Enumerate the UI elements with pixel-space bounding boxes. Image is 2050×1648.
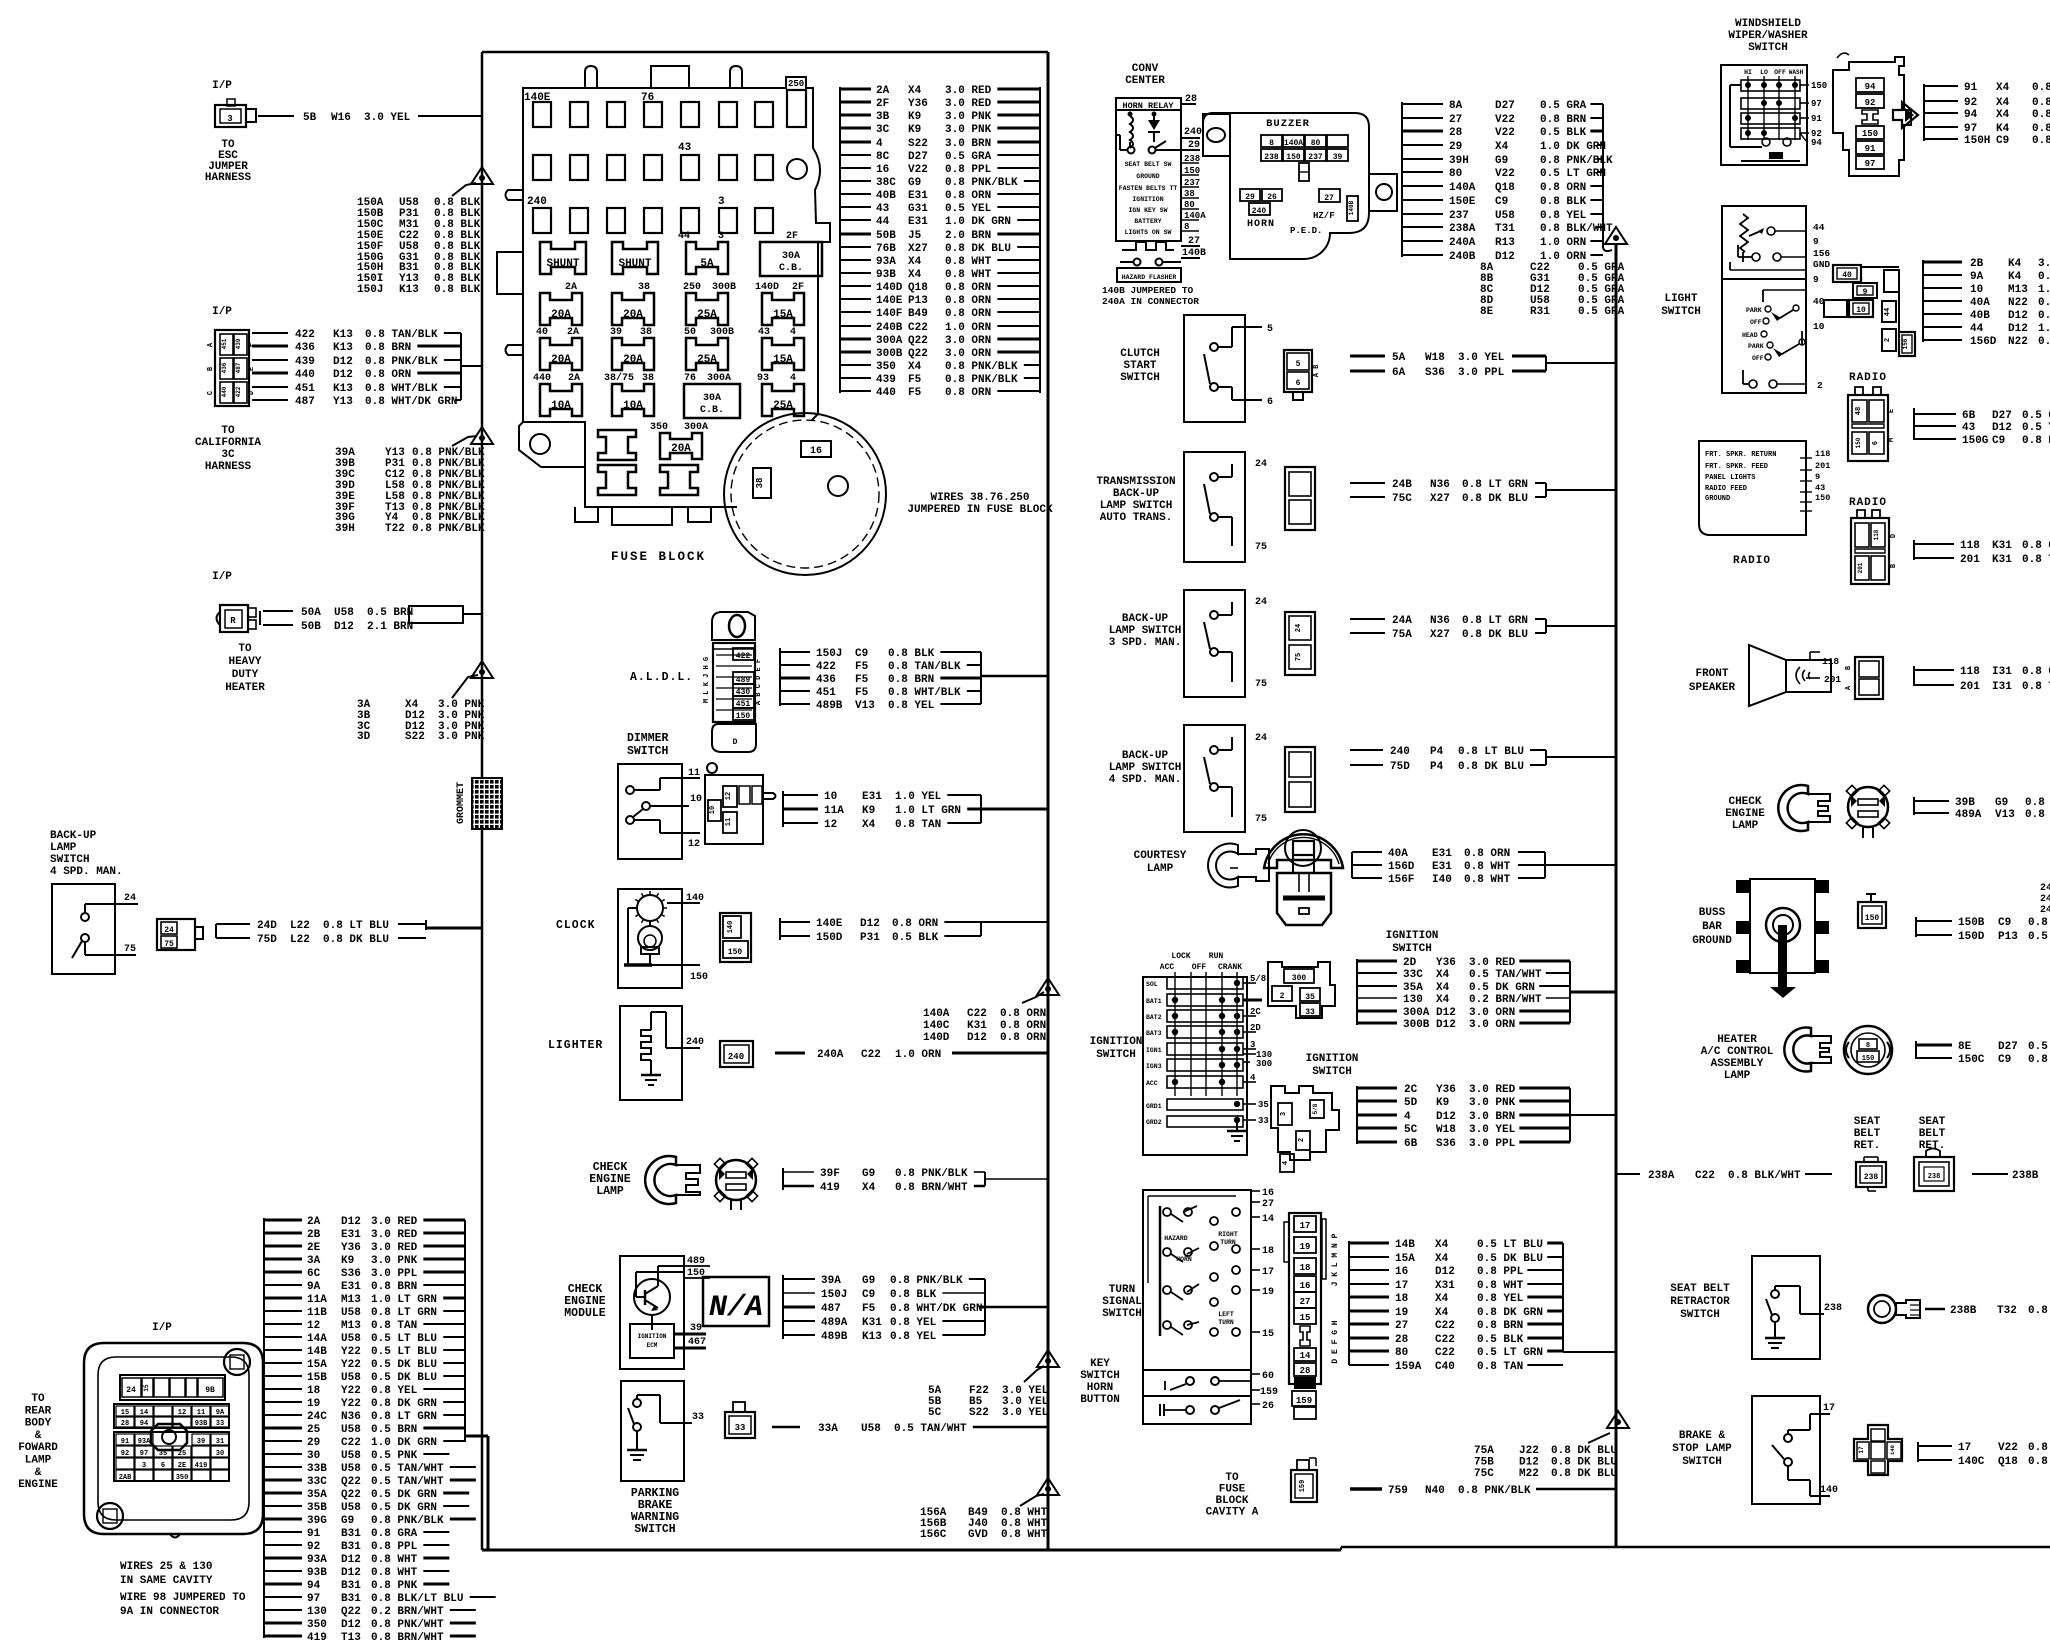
svg-text:0.8 BLK: 0.8 BLK: [2028, 917, 2050, 929]
svg-text:0.5 GRA: 0.5 GRA: [1578, 306, 1625, 318]
svg-text:HARNESS: HARNESS: [205, 461, 252, 473]
svg-text:CHECK: CHECK: [1728, 796, 1761, 808]
svg-text:GRD2: GRD2: [1146, 1119, 1162, 1126]
svg-text:5A: 5A: [700, 258, 714, 270]
svg-text:F5: F5: [862, 1303, 876, 1315]
svg-text:G9: G9: [908, 177, 921, 189]
svg-text:4: 4: [790, 327, 796, 338]
connector ignition upper: [1268, 962, 1335, 1018]
svg-text:3 SPD. MAN.: 3 SPD. MAN.: [1109, 637, 1182, 649]
svg-text:LOCK: LOCK: [1171, 952, 1190, 961]
svg-text:G9: G9: [1995, 797, 2008, 809]
svg-text:RADIO: RADIO: [1733, 555, 1771, 567]
pin 24: [116, 903, 138, 905]
node triangle spine lower: [1607, 1411, 1629, 1428]
svg-text:STOP LAMP: STOP LAMP: [1672, 1443, 1732, 1455]
svg-text:T22: T22: [385, 523, 405, 535]
fuse cavity r2c7: [755, 155, 773, 180]
wire 39F G9 0.8 PNK/BLK: [783, 1171, 814, 1173]
svg-text:E31: E31: [341, 1281, 361, 1293]
svg-text:0.5 LT BLU: 0.5 LT BLU: [371, 1333, 437, 1345]
wire transmission join spine: [1545, 483, 1547, 497]
wire 14A U58 0.5 LT BLU: [264, 1336, 302, 1338]
clock lamp: [638, 926, 662, 950]
svg-text:SWITCH: SWITCH: [1102, 1308, 1142, 1320]
svg-text:K13: K13: [333, 383, 353, 395]
svg-text:BRAKE &: BRAKE &: [1679, 1430, 1726, 1442]
svg-text:240A: 240A: [1449, 237, 1476, 249]
svg-text:2D: 2D: [1250, 1023, 1261, 1033]
svg-text:93B: 93B: [876, 269, 896, 281]
svg-text:M13: M13: [341, 1294, 361, 1306]
svg-text:X27: X27: [908, 243, 928, 255]
svg-text:D12: D12: [2008, 323, 2028, 335]
svg-text:0.8 YEL: 0.8 YEL: [2028, 1442, 2050, 1454]
svg-text:93A: 93A: [307, 1554, 327, 1566]
wire 451 K13 0.8 WHT/BLK: [252, 386, 288, 388]
wire 93A X4 0.8 WHT: [840, 259, 871, 261]
svg-text:C22: C22: [967, 1008, 987, 1020]
svg-text:0.8 PNK/BLK: 0.8 PNK/BLK: [890, 1275, 963, 1287]
svg-text:33A: 33A: [818, 1423, 838, 1435]
wire 44 E31 1.0 DK GRN: [840, 219, 871, 221]
svg-text:6: 6: [1296, 379, 1301, 388]
svg-text:440: 440: [295, 369, 315, 381]
svg-text:5C: 5C: [928, 1407, 942, 1419]
svg-text:Q22: Q22: [341, 1476, 361, 1488]
svg-text:436: 436: [221, 362, 228, 373]
svg-text:F5: F5: [855, 674, 869, 686]
svg-text:0.8 BRN: 0.8 BRN: [1540, 114, 1586, 126]
wire 97 K4 0.8: [1924, 126, 1958, 128]
svg-text:B49: B49: [908, 308, 928, 320]
svg-text:N36: N36: [341, 1411, 361, 1423]
svg-text:X4: X4: [862, 819, 876, 831]
svg-text:FOWARD: FOWARD: [18, 1442, 58, 1454]
svg-text:17: 17: [1262, 1267, 1274, 1278]
svg-text:ASSEMBLY: ASSEMBLY: [1711, 1058, 1764, 1070]
wire 150C C9 0.8 BLK: [1916, 1057, 1952, 1059]
svg-text:3: 3: [227, 114, 232, 124]
fuse cavity r3c6: [719, 208, 737, 233]
light switch rheostat: [1740, 214, 1748, 252]
svg-text:SPEAKER: SPEAKER: [1689, 682, 1736, 694]
svg-text:39H: 39H: [335, 523, 355, 535]
wire 6B S36 3.0 PPL: [1357, 1141, 1397, 1144]
svg-text:43: 43: [758, 327, 770, 338]
svg-text:39: 39: [690, 1323, 702, 1334]
svg-text:M13: M13: [341, 1320, 361, 1332]
svg-text:3.0 ORN: 3.0 ORN: [1469, 1007, 1515, 1019]
wire 91 B31 0.8 GRA: [264, 1531, 302, 1533]
svg-text:0.8 PNK/BLK: 0.8 PNK/BLK: [365, 356, 438, 368]
svg-text:MODULE: MODULE: [564, 1307, 606, 1320]
horn cavity 26: [1262, 189, 1282, 201]
fuse cavity r1c1: [533, 102, 551, 127]
svg-text:38: 38: [755, 478, 765, 489]
connector seat belt ret 2: [1914, 1157, 1954, 1191]
svg-text:0.8 DK BLU: 0.8 DK BLU: [1462, 629, 1528, 641]
svg-text:0.8 BRN: 0.8 BRN: [888, 674, 934, 686]
svg-text:75D: 75D: [257, 934, 277, 946]
wire center spine: [1615, 244, 1618, 1547]
wire 16 V22 0.8 PPL: [840, 167, 871, 169]
svg-text:0.8 PPL: 0.8 PPL: [1477, 1266, 1524, 1278]
wire 130 Q22 0.2 BRN/WHT: [264, 1609, 302, 1611]
svg-text:BAT1: BAT1: [1146, 998, 1162, 1005]
svg-text:D27: D27: [1992, 410, 2012, 422]
wiper switch wiper contacts: [1762, 138, 1770, 146]
horn relay contacts: [1128, 147, 1135, 154]
svg-text:X4: X4: [908, 269, 922, 281]
fuse cavity r3c5: [681, 208, 699, 233]
fuse cavity r3c3: [607, 208, 625, 233]
svg-text:I/P: I/P: [212, 571, 232, 583]
wire 350 X4 0.8 PNK/BLK: [840, 364, 871, 366]
svg-text:150E: 150E: [1449, 196, 1476, 208]
svg-text:118: 118: [1960, 540, 1980, 552]
svg-text:N36: N36: [1430, 615, 1450, 627]
fuse cavity r3c1: [533, 208, 551, 233]
wire 94 X4 0.8: [1924, 112, 1958, 114]
retractor switch contacts: [1771, 1290, 1779, 1298]
svg-text:15A: 15A: [773, 354, 793, 366]
svg-text:C9: C9: [862, 1289, 875, 1301]
svg-text:V22: V22: [1495, 168, 1515, 180]
svg-text:25: 25: [307, 1424, 321, 1436]
svg-text:27: 27: [1262, 1199, 1274, 1210]
wire 19 Y22 0.8 DK GRN: [264, 1401, 302, 1403]
wire 43 D12 0.5 YEL: [1914, 425, 1956, 427]
svg-text:6B: 6B: [1962, 410, 1976, 422]
svg-text:0.8 YEL: 0.8 YEL: [890, 1331, 937, 1343]
svg-text:19: 19: [1262, 1287, 1274, 1298]
svg-text:0.8 WHT: 0.8 WHT: [371, 1567, 418, 1579]
fuse vertical 1: [598, 430, 636, 460]
check engine lamp bulb: [716, 1160, 756, 1200]
svg-text:K9: K9: [862, 805, 875, 817]
svg-text:B31: B31: [341, 1580, 361, 1592]
svg-text:0.8 ORN: 0.8 ORN: [1000, 1032, 1046, 1044]
svg-text:33C: 33C: [307, 1476, 327, 1488]
svg-text:75: 75: [164, 940, 174, 949]
svg-text:140B: 140B: [1348, 200, 1355, 215]
svg-text:0.5 BRN: 0.5 BRN: [371, 1424, 417, 1436]
svg-text:300: 300: [1292, 974, 1307, 983]
courtesy lamp assembly: [1264, 834, 1343, 868]
svg-text:0.8 LT BLU: 0.8 LT BLU: [323, 920, 389, 932]
svg-text:OFF: OFF: [1774, 69, 1786, 76]
svg-text:140D: 140D: [755, 282, 779, 293]
fuse cavity r1c5: [681, 102, 699, 127]
svg-text:0.8 DK BLU: 0.8 DK BLU: [1551, 1445, 1617, 1457]
pin 240: [666, 1047, 700, 1049]
svg-text:REAR: REAR: [25, 1405, 52, 1417]
connector lighter 240: [720, 1041, 753, 1067]
wire 150D P13 0.5 BLK: [1916, 934, 1952, 936]
svg-text:L22: L22: [290, 934, 310, 946]
svg-text:LEFT: LEFT: [1218, 1311, 1234, 1318]
svg-text:W18: W18: [1425, 352, 1445, 364]
svg-text:487: 487: [235, 362, 242, 373]
wire 150E C9 0.8 BLK: [1402, 199, 1443, 201]
wire bus ALDL bracket: [779, 648, 781, 706]
svg-text:150H: 150H: [1964, 135, 1990, 147]
svg-text:E31: E31: [1432, 861, 1452, 873]
svg-text:4: 4: [876, 138, 883, 150]
connector center octagon: [151, 1424, 187, 1450]
svg-text:AUTO TRANS.: AUTO TRANS.: [1100, 512, 1173, 524]
svg-text:LAMP: LAMP: [596, 1185, 624, 1198]
svg-text:ACC: ACC: [1146, 1080, 1158, 1087]
svg-text:3.0 PPL: 3.0 PPL: [371, 1268, 418, 1280]
svg-text:436: 436: [816, 674, 836, 686]
wire leader 156 list to triangle: [1020, 1494, 1044, 1506]
svg-text:C9: C9: [1998, 917, 2011, 929]
svg-text:35: 35: [1305, 993, 1315, 1002]
svg-text:3.0 PNK: 3.0 PNK: [945, 111, 992, 123]
svg-text:V13: V13: [1995, 809, 2015, 821]
svg-text:201: 201: [1824, 674, 1841, 685]
connector ear bottom left: [97, 1503, 123, 1529]
svg-text:75: 75: [1255, 814, 1267, 825]
svg-text:0.8 TAN: 0.8 TAN: [371, 1320, 417, 1332]
wire 44 D12 1.0: [1923, 326, 1962, 328]
svg-text:3.0 RED: 3.0 RED: [371, 1242, 418, 1254]
svg-text:0.5 GRA: 0.5 GRA: [2028, 1041, 2050, 1053]
wire leader 140 list to triangle: [1022, 992, 1044, 1003]
svg-text:97: 97: [140, 1450, 148, 1458]
svg-text:0.8 TAN: 0.8 TAN: [2022, 681, 2050, 693]
svg-text:75: 75: [124, 944, 136, 955]
svg-text:3.0 YEL: 3.0 YEL: [364, 112, 411, 124]
svg-text:WIRE 98 JUMPERED TO: WIRE 98 JUMPERED TO: [120, 1592, 246, 1604]
svg-text:30A: 30A: [782, 251, 800, 262]
svg-text:44: 44: [1884, 308, 1892, 316]
svg-text:0.8 ORN: 0.8 ORN: [945, 295, 991, 307]
fuse cavity r1c3: [607, 102, 625, 127]
svg-text:CAVITY A: CAVITY A: [1206, 1507, 1259, 1519]
wire 422 K13 0.8 TAN/BLK: [252, 332, 288, 334]
wire 18 Y22 0.8 YEL: [264, 1388, 302, 1390]
svg-text:KEY: KEY: [1090, 1358, 1110, 1370]
wire 16 D12 0.8 PPL: [1349, 1269, 1389, 1271]
wire 28 V22 0.5 BLK: [1402, 130, 1443, 133]
wire main harness left border: [481, 52, 484, 778]
connector wiper arrow: [1893, 102, 1918, 128]
svg-text:118: 118: [1822, 656, 1839, 667]
svg-text:24D: 24D: [257, 920, 277, 932]
wire bottom bus right segment: [1341, 1546, 2050, 1549]
svg-text:X4: X4: [1436, 969, 1450, 981]
svg-text:5C: 5C: [1404, 1124, 1418, 1136]
svg-text:5/8: 5/8: [1312, 1103, 1319, 1114]
svg-text:X4: X4: [1436, 994, 1450, 1006]
svg-text:0.8 ORN: 0.8 ORN: [1540, 182, 1586, 194]
svg-text:12: 12: [824, 819, 837, 831]
wiper switch dots: [1745, 82, 1751, 88]
svg-text:R31: R31: [1530, 306, 1550, 318]
wire bus dimmer bracket: [782, 791, 784, 827]
svg-text:T32: T32: [1997, 1305, 2017, 1317]
svg-text:S22: S22: [405, 731, 425, 743]
connector to heavy duty heater: [220, 605, 248, 632]
svg-text:24: 24: [126, 1386, 136, 1395]
wire leader 5A list to triangle: [1024, 1366, 1044, 1382]
svg-text:D12: D12: [341, 1567, 361, 1579]
svg-text:0.8 BLK: 0.8 BLK: [888, 648, 935, 660]
connector cavity strip 2: [114, 1404, 229, 1428]
svg-text:9: 9: [1813, 274, 1819, 285]
fuse block circle cavity 38: [753, 468, 771, 498]
svg-text:3.0 YEL: 3.0 YEL: [1469, 1124, 1516, 1136]
svg-text:X4: X4: [908, 85, 922, 97]
pin 11: [660, 777, 700, 779]
svg-text:0.8 PNK/BLK: 0.8 PNK/BLK: [945, 361, 1018, 373]
svg-text:SEAT: SEAT: [1919, 1116, 1946, 1128]
horn relay pin 28: [1181, 103, 1196, 105]
svg-text:&: &: [35, 1430, 42, 1442]
svg-text:ENGINE: ENGINE: [1725, 808, 1765, 820]
svg-text:3.0 PPL: 3.0 PPL: [1469, 1138, 1516, 1150]
svg-text:140E: 140E: [816, 918, 843, 930]
svg-text:38C: 38C: [876, 177, 896, 189]
node triangle center spine top: [1605, 227, 1627, 244]
light switch contact row: [1752, 253, 1760, 261]
svg-text:HI: HI: [1744, 69, 1752, 76]
wire 10 M13 1.0: [1923, 287, 1962, 289]
svg-text:2A: 2A: [876, 85, 890, 97]
svg-text:150: 150: [1811, 81, 1827, 91]
svg-text:487: 487: [821, 1303, 841, 1315]
svg-text:0.8 PNK/BLK: 0.8 PNK/BLK: [895, 1168, 968, 1180]
svg-text:0.5 GRA: 0.5 GRA: [945, 151, 992, 163]
svg-text:18: 18: [1395, 1293, 1409, 1305]
svg-text:0.8 YEL: 0.8 YEL: [371, 1385, 418, 1397]
svg-text:3.0 YEL: 3.0 YEL: [1002, 1407, 1049, 1419]
svg-text:1.0 LT GRN: 1.0 LT GRN: [371, 1294, 437, 1306]
svg-text:PANEL LIGHTS: PANEL LIGHTS: [1705, 474, 1755, 482]
svg-text:92: 92: [307, 1541, 320, 1553]
svg-text:I/P: I/P: [212, 80, 232, 92]
svg-text:3.0 RED: 3.0 RED: [1469, 957, 1516, 969]
svg-text:43: 43: [876, 203, 890, 215]
back-up 3spd switch box: [1184, 590, 1245, 697]
svg-text:C9: C9: [1996, 135, 2009, 147]
svg-text:FUSE: FUSE: [1219, 1484, 1246, 1496]
wire bus buss bar: [1915, 917, 1917, 937]
svg-text:28: 28: [121, 1420, 129, 1428]
wire 140A Q18 0.8 ORN: [1402, 185, 1443, 187]
buzzer cavities row2: [1261, 149, 1282, 161]
svg-text:Y22: Y22: [341, 1359, 361, 1371]
key switch horn row: [1143, 1396, 1251, 1424]
wire 33A U58 0.5 TAN/WHT: [772, 1426, 800, 1429]
svg-text:489A: 489A: [821, 1317, 848, 1329]
svg-text:489A: 489A: [1955, 809, 1982, 821]
svg-text:TO: TO: [238, 643, 252, 655]
svg-text:39: 39: [1333, 153, 1343, 162]
svg-text:LAMP: LAMP: [1724, 1070, 1751, 1082]
wire 300A D12 3.0 ORN: [1357, 1010, 1397, 1013]
wire back-up 4spd join spine: [1545, 750, 1547, 765]
svg-text:0.8 GRA: 0.8 GRA: [371, 1528, 418, 1540]
svg-text:130: 130: [307, 1606, 327, 1618]
wire 75D P4 0.8 DK BLU: [1350, 764, 1383, 766]
svg-text:K31: K31: [967, 1020, 987, 1032]
svg-text:6: 6: [1267, 397, 1273, 408]
svg-text:A B C D E F: A B C D E F: [755, 659, 763, 705]
svg-text:237: 237: [1184, 178, 1200, 188]
svg-text:422: 422: [295, 329, 315, 341]
wire 40B D12 0.8: [1923, 313, 1962, 315]
svg-text:14: 14: [140, 1409, 148, 1417]
svg-text:X4: X4: [1996, 109, 2010, 121]
svg-text:WIRES 38.76.250: WIRES 38.76.250: [930, 492, 1029, 504]
svg-text:BAT3: BAT3: [1146, 1030, 1162, 1037]
svg-text:156F: 156F: [1388, 874, 1414, 886]
hazard flasher pin 140B: [1181, 257, 1200, 259]
svg-text:D12: D12: [860, 918, 880, 930]
wire 3B K9 3.0 PNK: [840, 114, 871, 117]
svg-text:159: 159: [1260, 1387, 1278, 1398]
svg-text:X4: X4: [1435, 1253, 1449, 1265]
svg-text:5: 5: [1267, 324, 1273, 335]
svg-text:94: 94: [1964, 109, 1978, 121]
svg-text:D12: D12: [341, 1619, 361, 1631]
svg-text:LAMP: LAMP: [1147, 863, 1174, 875]
svg-text:94: 94: [1811, 138, 1822, 148]
svg-text:GND: GND: [1813, 259, 1830, 270]
svg-text:9: 9: [1813, 236, 1819, 247]
svg-text:HEATER: HEATER: [225, 682, 265, 694]
svg-text:150: 150: [1862, 129, 1878, 139]
svg-text:0.8 YEL: 0.8 YEL: [1477, 1293, 1524, 1305]
svg-text:80: 80: [1395, 1347, 1408, 1359]
fuse cavity r3c2: [570, 208, 588, 233]
svg-text:3.0 ORN: 3.0 ORN: [1469, 1019, 1515, 1031]
wire 30 U58 0.5 PNK: [264, 1453, 302, 1455]
svg-text:2F: 2F: [786, 231, 798, 242]
svg-text:3C: 3C: [876, 124, 890, 136]
horn relay diode: [1148, 120, 1160, 130]
svg-text:0.8 DK BLU: 0.8 DK BLU: [1458, 761, 1524, 773]
svg-text:HZ/F: HZ/F: [1313, 211, 1335, 221]
svg-text:14B: 14B: [1395, 1239, 1415, 1251]
horn relay coil: [1130, 116, 1133, 148]
svg-text:GVD: GVD: [968, 1529, 988, 1541]
svg-text:PARK: PARK: [1746, 307, 1762, 314]
retractor ground: [1774, 1322, 1776, 1338]
svg-text:17: 17: [1823, 1403, 1835, 1414]
svg-text:0.8 WHT/BLK: 0.8 WHT/BLK: [365, 383, 438, 395]
svg-text:0.8 LT GRN: 0.8 LT GRN: [371, 1307, 437, 1319]
wire 12 M13 0.8 TAN: [264, 1323, 302, 1325]
wire bus ip list right: [464, 1220, 466, 1442]
svg-text:X31: X31: [1435, 1280, 1455, 1292]
svg-text:14: 14: [1262, 1214, 1274, 1225]
horn relay box: [1116, 98, 1181, 241]
wire 140F B49 0.8 ORN: [840, 311, 871, 313]
svg-text:K4: K4: [2008, 271, 2022, 283]
svg-text:0.8 BLK: 0.8 BLK: [890, 1289, 937, 1301]
svg-text:HAZARD: HAZARD: [1164, 1235, 1188, 1242]
svg-text:0.8 BLK/LT BLU: 0.8 BLK/LT BLU: [371, 1593, 463, 1605]
wire bus heater ac: [1915, 1041, 1917, 1059]
wire 27 C22 0.8 BRN: [1349, 1323, 1389, 1326]
svg-text:COURTESY: COURTESY: [1134, 850, 1187, 862]
svg-text:0.5 DK BLU: 0.5 DK BLU: [1477, 1253, 1543, 1265]
